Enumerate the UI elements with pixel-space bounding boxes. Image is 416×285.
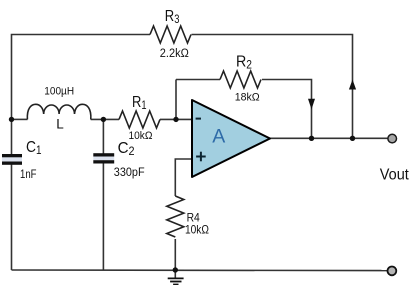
svg-text:330pF: 330pF	[114, 165, 145, 179]
capacitor C1	[2, 154, 22, 165]
wire left rail above C1	[11, 119, 13, 154]
wire between L and R1	[91, 118, 119, 120]
ground	[168, 278, 184, 284]
resistor R2	[220, 71, 261, 88]
wire op-amp output	[270, 137, 388, 139]
wire C2 branch upper	[102, 119, 104, 153]
op-amp plus sign	[196, 152, 206, 162]
svg-text:18kΩ: 18kΩ	[235, 92, 260, 104]
current arrow down (R2 branch)	[308, 99, 315, 110]
svg-text:A: A	[212, 126, 225, 148]
wire top rail right of R3	[192, 35, 353, 139]
wire ground stub	[174, 270, 176, 278]
wire left rail below C1	[11, 165, 13, 271]
wire R1 to op-amp minus input	[160, 118, 192, 120]
wire plus input to R4	[175, 159, 192, 196]
resistor R4	[167, 196, 184, 237]
svg-text:2.2kΩ: 2.2kΩ	[160, 48, 189, 60]
wire mid rail L to R1	[12, 118, 28, 120]
wire bottom rail	[12, 269, 389, 272]
resistor R1	[119, 111, 160, 128]
wire R2 right lead and drop	[262, 80, 312, 139]
svg-text:10kΩ: 10kΩ	[129, 130, 153, 142]
capacitor C2	[93, 153, 114, 163]
junction node at left rail / L	[9, 117, 14, 122]
wire R2 left lead	[176, 79, 220, 81]
svg-text:L: L	[56, 116, 64, 131]
op-amp minus sign	[196, 118, 201, 120]
wire top rail left of R3	[12, 35, 151, 120]
junction node at R1 / R2 riser / minus input	[173, 117, 178, 122]
terminal bottom	[388, 267, 397, 276]
svg-text:1nF: 1nF	[20, 169, 37, 181]
svg-text:Vout: Vout	[380, 166, 410, 183]
wire R4 to bottom rail	[174, 239, 176, 270]
svg-text:100µH: 100µH	[44, 86, 74, 98]
svg-text:10kΩ: 10kΩ	[185, 223, 209, 237]
inductor L	[27, 104, 91, 119]
op-amp A	[192, 100, 270, 177]
wire C2 branch lower	[102, 164, 104, 271]
junction node at C2 / L / R1	[101, 117, 106, 122]
resistor R3	[150, 26, 191, 43]
junction node at R4 / bottom rail	[173, 267, 178, 272]
wire R2 riser	[175, 80, 177, 120]
junction node at R3 riser / output	[350, 136, 355, 141]
current arrow up (R3 branch)	[349, 80, 356, 90]
junction node at R2 drop / output	[309, 136, 314, 141]
terminal Vout	[388, 134, 397, 143]
